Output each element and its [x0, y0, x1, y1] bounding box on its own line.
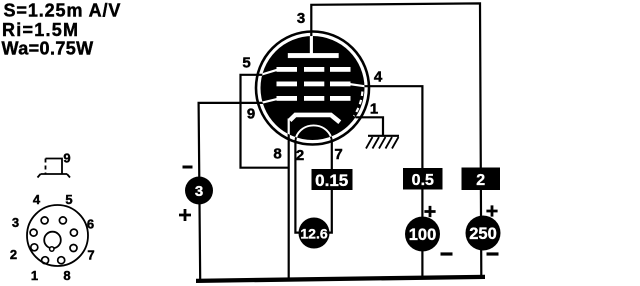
- svg-text:8: 8: [273, 146, 281, 163]
- svg-text:250: 250: [469, 225, 497, 243]
- svg-text:3: 3: [12, 215, 19, 230]
- svg-text:1: 1: [31, 268, 38, 283]
- svg-text:9: 9: [63, 151, 70, 166]
- svg-text:7: 7: [87, 248, 94, 263]
- svg-text:12.6: 12.6: [300, 226, 327, 242]
- svg-text:0.15: 0.15: [315, 171, 348, 190]
- svg-text:8: 8: [63, 268, 70, 283]
- svg-text:9: 9: [247, 106, 255, 123]
- svg-text:7: 7: [334, 146, 342, 163]
- svg-text:5: 5: [65, 192, 72, 207]
- svg-text:S=1.25m A/V: S=1.25m A/V: [4, 0, 122, 20]
- svg-text:5: 5: [242, 55, 250, 72]
- svg-text:1: 1: [370, 101, 378, 118]
- svg-text:100: 100: [409, 226, 437, 244]
- svg-text:Ri=1.5M: Ri=1.5M: [2, 20, 79, 40]
- svg-text:3: 3: [297, 10, 305, 27]
- svg-text:4: 4: [33, 192, 41, 207]
- svg-text:Wa=0.75W: Wa=0.75W: [2, 39, 94, 59]
- svg-text:2: 2: [476, 172, 485, 189]
- svg-text:2: 2: [296, 147, 304, 164]
- svg-text:4: 4: [374, 69, 383, 86]
- svg-text:2: 2: [10, 247, 17, 262]
- svg-text:6: 6: [87, 217, 94, 232]
- svg-text:3: 3: [195, 183, 203, 200]
- svg-text:0.5: 0.5: [412, 172, 434, 189]
